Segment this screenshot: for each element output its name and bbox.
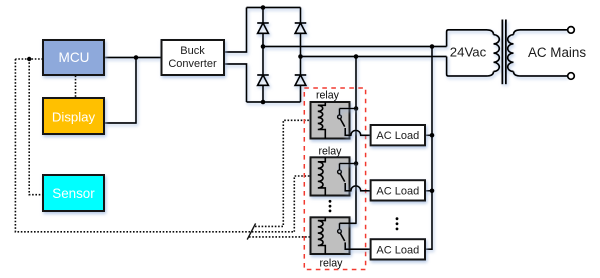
wire relay K1 output to AC Load 1 (hop over rail)	[345, 128, 370, 135]
node dotted bus junction	[27, 57, 31, 61]
AC Mains terminal top	[568, 27, 575, 34]
relay K3 switch contact	[338, 229, 345, 241]
AC Load 1	[371, 125, 425, 145]
svg-text:relay: relay	[320, 257, 344, 269]
Sensor module	[43, 175, 104, 211]
diode D3 (bridge bottom-left)	[257, 75, 269, 85]
wire relay K2 output to AC Load 2 (hop over rail)	[345, 183, 370, 191]
svg-text:AC Mains: AC Mains	[528, 45, 586, 60]
wire Buck bottom output to bridge - rail	[224, 64, 247, 102]
relay K1 coil	[318, 102, 326, 139]
wire dotted branch to Sensor	[29, 59, 43, 195]
transformer T1 primary loop top	[514, 30, 568, 35]
wire AC line 1 (bridge left mid to transformer secondary top)	[263, 46, 447, 48]
svg-text:Converter: Converter	[168, 58, 217, 70]
wire dotted main bus down-left	[15, 59, 294, 232]
relay K2 switch pole wire	[340, 164, 357, 171]
relay K3	[311, 217, 350, 254]
relay K1	[311, 102, 350, 139]
wire AC line 2 (bridge right mid to transformer secondary bottom)	[301, 56, 447, 58]
wire AC Load 2 right to rail	[425, 190, 432, 192]
diode D4 (bridge bottom-right)	[295, 75, 307, 85]
wire MCU to Buck Converter	[104, 57, 162, 59]
wire dotted MCU to Display	[75, 76, 77, 99]
relay K2 switch contact	[338, 170, 345, 182]
relay K2	[311, 157, 350, 195]
node AC line 1 / load rail junction	[430, 44, 435, 49]
svg-text:AC Load: AC Load	[376, 244, 419, 256]
node relay K2 rail tap	[354, 161, 359, 166]
node AC Load 1 rail junction	[430, 133, 435, 138]
transformer T1 secondary winding	[494, 35, 500, 72]
Display module	[43, 98, 104, 134]
transformer T1 primary winding	[508, 35, 514, 72]
svg-text:Buck: Buck	[180, 45, 205, 57]
transformer T1 secondary 24Vac loop top	[447, 30, 494, 47]
wire dotted branch line to relay 1	[255, 120, 311, 226]
node junction MCU/Display/Buck	[134, 55, 139, 60]
AC Mains terminal bottom	[568, 73, 575, 80]
svg-text:Sensor: Sensor	[52, 186, 95, 201]
relay K1 switch contact	[338, 115, 345, 127]
relay K2 coil	[318, 157, 326, 195]
bus slash mark	[247, 223, 255, 239]
wire bridge left branch	[262, 8, 264, 103]
wire left relay rail (switched AC feed)	[340, 57, 357, 224]
wire dotted riser to relay 2	[294, 176, 310, 232]
svg-text:MCU: MCU	[59, 50, 90, 65]
red dashed relay bank outline	[304, 88, 365, 270]
svg-text:relay: relay	[319, 146, 343, 158]
node bridge bottom rail left branch	[261, 100, 266, 105]
node bridge top rail left branch	[261, 5, 266, 10]
transformer T1 primary loop bottom	[514, 72, 568, 77]
relay K3 coil	[318, 217, 326, 254]
node AC line 2 / relay rail junction	[354, 54, 359, 59]
svg-text:Display: Display	[52, 110, 96, 125]
Buck Converter U2	[162, 40, 225, 75]
svg-text:AC Load: AC Load	[376, 185, 419, 197]
relay K1 switch pole wire	[340, 109, 357, 116]
diode D2 (bridge top-right)	[295, 23, 307, 33]
wire Buck top output to bridge + rail	[224, 8, 247, 53]
MCU U1	[43, 40, 104, 75]
AC Load 3	[371, 239, 425, 259]
wire bridge bottom rail	[247, 101, 301, 103]
relay K3 switch pole wire	[340, 223, 357, 229]
node relay K1 rail tap	[354, 106, 359, 111]
wire dotted MCU left	[15, 58, 43, 60]
wire relay K3 output to AC Load 3	[345, 242, 370, 249]
transformer T1 secondary loop bottom	[447, 57, 494, 77]
ellipsis between AC Load 2 and AC Load 3	[396, 217, 399, 230]
node bridge right mid junction	[298, 54, 303, 59]
svg-text:24Vac: 24Vac	[450, 45, 487, 60]
node AC Load 2 rail junction	[430, 189, 435, 194]
node bridge left mid junction	[261, 44, 266, 49]
diode D1 (bridge top-left)	[257, 23, 269, 33]
AC Load 2	[371, 180, 425, 200]
transformer T1 core	[502, 20, 506, 85]
wire right load rail (AC return)	[425, 47, 432, 250]
wire AC Load 1 right to rail	[425, 134, 432, 136]
svg-text:AC Load: AC Load	[376, 130, 419, 142]
wire bridge top rail	[247, 7, 301, 9]
wire Display to junction	[105, 58, 137, 124]
svg-text:relay: relay	[316, 89, 340, 101]
wire bridge right branch	[300, 8, 302, 103]
ellipsis between relay 2 and relay 3	[329, 200, 332, 212]
wire dotted branch line to relay 3	[249, 236, 311, 238]
